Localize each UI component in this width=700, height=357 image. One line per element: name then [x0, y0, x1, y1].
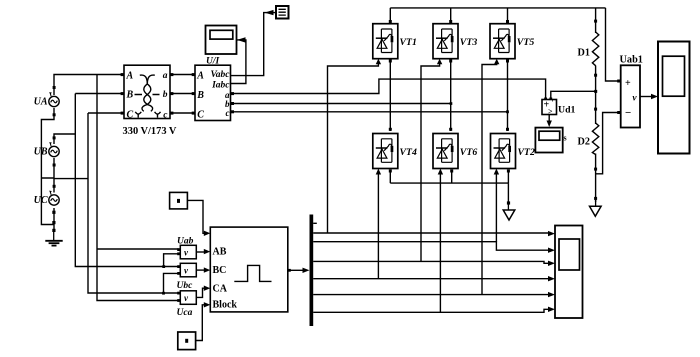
svg-text:B: B — [196, 90, 204, 101]
svg-text:330 V/173 V: 330 V/173 V — [123, 126, 177, 137]
svg-text:UB: UB — [34, 147, 48, 158]
svg-text:Uab1: Uab1 — [620, 55, 643, 66]
svg-text:+: + — [625, 78, 631, 89]
svg-text:UC: UC — [34, 195, 48, 206]
svg-text:>: > — [548, 107, 553, 116]
svg-text:UA: UA — [34, 97, 48, 108]
svg-text:A: A — [196, 71, 204, 82]
svg-text:VT2: VT2 — [518, 147, 536, 158]
svg-text:U/I: U/I — [206, 57, 220, 67]
svg-text:c: c — [226, 108, 230, 118]
svg-text:A: A — [126, 71, 134, 82]
svg-text:−: − — [625, 107, 631, 119]
svg-text:VT3: VT3 — [460, 37, 478, 48]
svg-text:b: b — [163, 90, 168, 100]
svg-text:VT4: VT4 — [400, 147, 418, 158]
svg-text:C: C — [197, 110, 204, 121]
svg-text:': ' — [552, 99, 554, 107]
svg-text:D1: D1 — [578, 48, 590, 59]
svg-text:Ud1: Ud1 — [558, 105, 576, 116]
svg-text:AB: AB — [213, 246, 227, 257]
svg-text:VT6: VT6 — [460, 147, 478, 158]
svg-text:BC: BC — [213, 265, 227, 276]
svg-text:Uab: Uab — [177, 237, 194, 247]
svg-text:a: a — [163, 71, 168, 81]
svg-text:Ubc: Ubc — [177, 281, 194, 291]
svg-text:B: B — [126, 90, 134, 101]
svg-text:VT5: VT5 — [517, 37, 535, 48]
svg-text:Vabc: Vabc — [211, 70, 231, 80]
svg-text:C: C — [127, 110, 134, 121]
svg-text:s: s — [564, 134, 567, 143]
svg-text:Block: Block — [213, 300, 238, 311]
svg-text:VT1: VT1 — [400, 37, 417, 48]
svg-text:CA: CA — [213, 283, 228, 294]
svg-text:D2: D2 — [578, 137, 590, 148]
svg-text:Uca: Uca — [177, 308, 193, 318]
